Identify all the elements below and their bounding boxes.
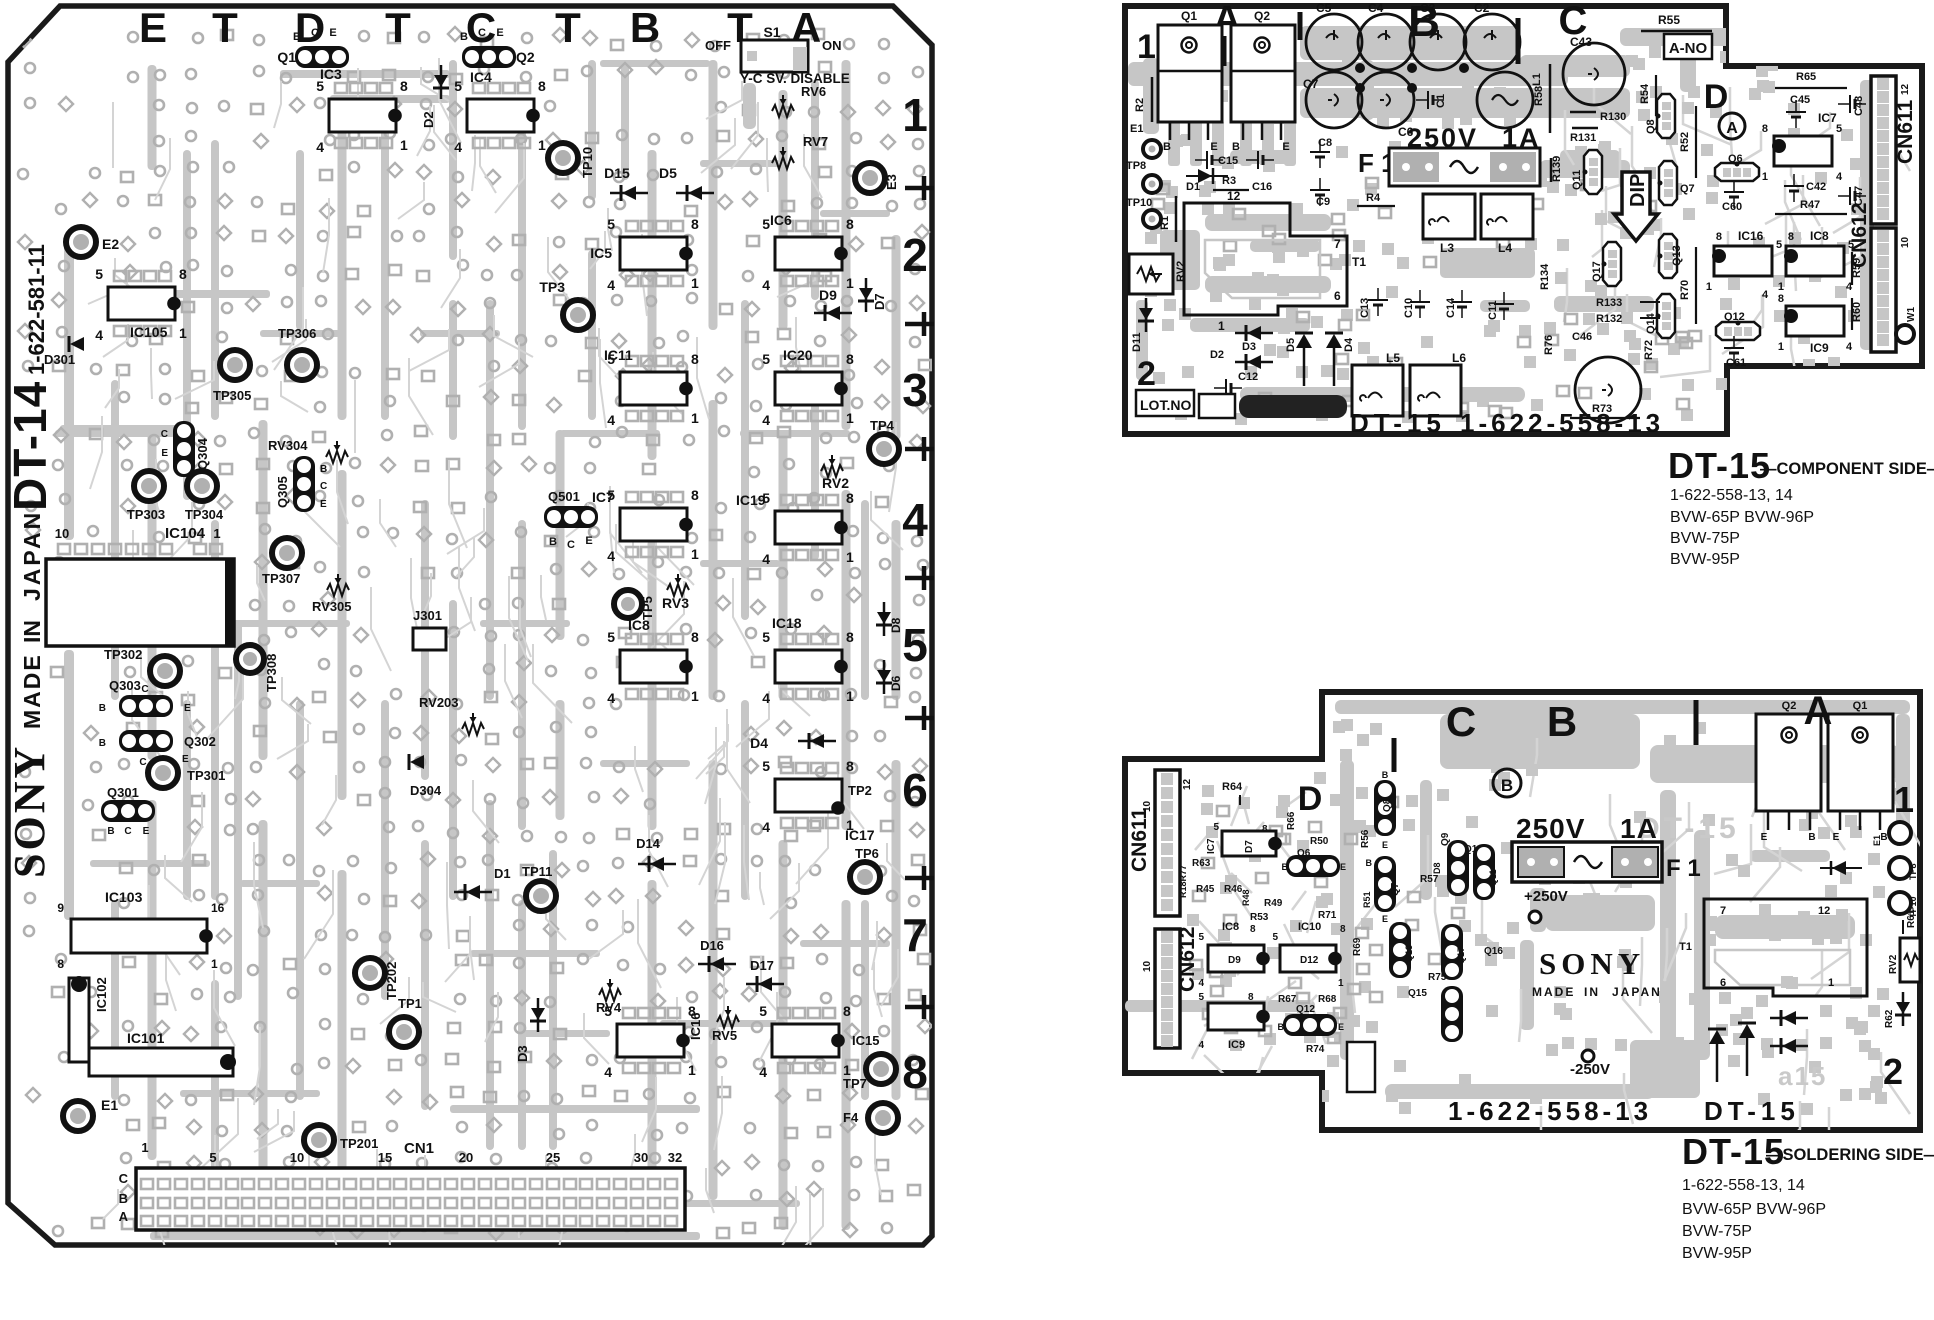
svg-text:R46: R46 (1224, 884, 1243, 895)
svg-text:8: 8 (400, 78, 408, 94)
IC104 (46, 559, 234, 646)
svg-text:IC18: IC18 (772, 615, 802, 631)
svg-text:5: 5 (1272, 932, 1278, 943)
svg-text:8: 8 (1248, 992, 1254, 1003)
IC11 (620, 372, 687, 405)
svg-text:B: B (1163, 141, 1171, 153)
svg-text:D301: D301 (44, 352, 75, 367)
svg-text:5: 5 (604, 1003, 612, 1019)
svg-text:2: 2 (902, 229, 928, 281)
svg-text:R2: R2 (1134, 98, 1146, 112)
connector CN611 (1155, 770, 1180, 916)
svg-text:B: B (99, 703, 106, 714)
svg-text:R65: R65 (1796, 71, 1816, 83)
test point W1 (1896, 325, 1914, 343)
IC20 (775, 372, 842, 405)
svg-text:C11: C11 (1487, 300, 1499, 320)
transformer T1 (1704, 899, 1867, 996)
svg-text:D14: D14 (636, 836, 661, 851)
svg-text:4: 4 (762, 277, 770, 293)
svg-text:1: 1 (846, 549, 854, 565)
svg-text:D1: D1 (1186, 181, 1200, 193)
-250V test point (1582, 1050, 1594, 1062)
svg-text:5: 5 (902, 619, 928, 671)
svg-text:R61: R61 (1906, 909, 1917, 928)
svg-text:SONY: SONY (1539, 946, 1645, 981)
svg-text:IC7: IC7 (592, 489, 614, 505)
svg-text:D: D (295, 4, 325, 51)
capacitor C15 (1206, 151, 1208, 169)
diode D8 (877, 612, 891, 624)
transistor Q17 (1441, 924, 1463, 980)
test point TP5 (614, 590, 642, 618)
trimmer RV7 (772, 157, 794, 169)
svg-text:1: 1 (141, 1140, 148, 1155)
diode D2 (434, 75, 448, 87)
svg-text:7: 7 (1720, 905, 1726, 917)
svg-text:E: E (1210, 141, 1217, 153)
svg-text:OFF: OFF (705, 38, 731, 53)
svg-text:E1: E1 (1130, 123, 1143, 135)
trimmer RV304 (326, 451, 348, 463)
svg-text:CN612: CN612 (1848, 203, 1871, 268)
svg-text:Q15: Q15 (1408, 988, 1427, 999)
svg-text:R52: R52 (1679, 132, 1691, 152)
transistor Q1 (1828, 714, 1893, 811)
capacitor C43 (1563, 43, 1625, 105)
svg-text:TP8: TP8 (1126, 160, 1146, 172)
diode D304 (410, 755, 424, 769)
test point TP10 (548, 143, 578, 173)
svg-text:TP6: TP6 (855, 846, 879, 861)
svg-text:Q301: Q301 (107, 785, 139, 800)
svg-text:1: 1 (1778, 341, 1784, 353)
svg-text:1-622-558-13: 1-622-558-13 (1448, 1096, 1652, 1126)
svg-text:IN: IN (19, 620, 45, 643)
svg-text:B: B (1278, 1022, 1285, 1032)
svg-text:MADE: MADE (19, 653, 45, 729)
transistor Q11 (1473, 844, 1495, 900)
svg-text:IC101: IC101 (127, 1030, 165, 1046)
transistor Q6 (1715, 163, 1759, 181)
svg-text:D1: D1 (494, 866, 511, 881)
svg-text:Q16: Q16 (1484, 946, 1503, 957)
svg-text:8: 8 (179, 266, 187, 282)
svg-text:5: 5 (1198, 992, 1204, 1003)
svg-text:4: 4 (902, 494, 928, 546)
trimmer RV2 (1900, 938, 1920, 982)
svg-text:Q11: Q11 (1488, 869, 1498, 886)
svg-text:JAPAN: JAPAN (1612, 985, 1662, 999)
trimmer RV3 (667, 584, 689, 596)
capacitor C9 (1310, 189, 1330, 191)
IC9 (1208, 1003, 1264, 1030)
svg-text:Q1: Q1 (1181, 9, 1197, 23)
svg-text:C: C (478, 27, 486, 39)
diode D4 (810, 734, 824, 748)
svg-text:BVW-65P BVW-96P: BVW-65P BVW-96P (1670, 509, 1814, 526)
svg-text:4: 4 (1198, 978, 1204, 989)
svg-text:DT-15: DT-15 (1350, 408, 1446, 438)
svg-text:A: A (1726, 120, 1738, 137)
diode D5 (688, 186, 702, 200)
svg-text:E2: E2 (102, 236, 119, 252)
diode D2 (1247, 355, 1261, 369)
capacitor C16 (1257, 151, 1259, 169)
transistor Q305 (293, 456, 315, 512)
transistor Q7 (1374, 856, 1396, 912)
svg-text:E: E (182, 754, 189, 765)
svg-text:T: T (212, 4, 238, 51)
svg-text:Q303: Q303 (109, 678, 141, 693)
trimmer RV2 (821, 465, 843, 477)
svg-text:Q8: Q8 (1382, 798, 1393, 812)
svg-text:E: E (496, 27, 503, 39)
svg-text:4: 4 (1198, 1040, 1204, 1051)
svg-text:E: E (320, 499, 327, 510)
svg-text:Q1: Q1 (277, 49, 296, 65)
svg-text:1: 1 (1778, 281, 1784, 293)
svg-text:C2: C2 (1474, 1, 1490, 15)
svg-text:4: 4 (1762, 289, 1769, 301)
svg-text:TP2: TP2 (848, 783, 872, 798)
capacitor C12 (1225, 379, 1227, 397)
svg-text:D17: D17 (750, 958, 774, 973)
svg-text:C: C (567, 539, 575, 551)
svg-text:8: 8 (691, 629, 699, 645)
svg-text:C: C (161, 429, 168, 440)
svg-text:C: C (124, 826, 131, 837)
svg-text:R72: R72 (1643, 340, 1655, 360)
svg-text:4: 4 (762, 690, 770, 706)
svg-text:IC16: IC16 (1738, 229, 1764, 243)
svg-text:-250V: -250V (1570, 1061, 1610, 1078)
svg-text:CN611: CN611 (1128, 807, 1151, 872)
svg-text:1: 1 (691, 275, 699, 291)
svg-text:D5: D5 (659, 165, 677, 181)
svg-text:TP305: TP305 (213, 388, 251, 403)
transistor Q13 (1389, 922, 1411, 978)
svg-text:D15: D15 (604, 165, 630, 181)
test point TP304 (187, 471, 217, 501)
svg-text:1: 1 (1137, 28, 1156, 66)
switch S1 (741, 40, 808, 72)
svg-text:B: B (320, 464, 327, 475)
svg-text:4: 4 (762, 551, 770, 567)
svg-text:TP302: TP302 (104, 647, 142, 662)
transistor Q12 (1283, 1014, 1337, 1036)
svg-text:D8: D8 (889, 617, 903, 633)
svg-text:12: 12 (1818, 905, 1830, 917)
svg-text:F4: F4 (843, 1110, 859, 1125)
test point TP302 (150, 656, 180, 686)
svg-text:F 1: F 1 (1666, 855, 1701, 882)
svg-text:DT-15: DT-15 (1704, 1096, 1800, 1126)
svg-text:32: 32 (668, 1150, 682, 1165)
svg-text:T: T (555, 4, 581, 51)
svg-text:E1: E1 (1872, 835, 1882, 846)
electrolytic capacitors C5 C4 C3 C2 (1306, 14, 1362, 70)
svg-text:1: 1 (691, 688, 699, 704)
svg-text:5: 5 (1836, 123, 1842, 135)
diode D4 (1326, 334, 1342, 348)
svg-text:C42: C42 (1806, 181, 1826, 193)
svg-text:D16: D16 (700, 938, 724, 953)
svg-text:R76: R76 (1543, 335, 1555, 355)
svg-text:8: 8 (691, 216, 699, 232)
svg-text:1A: 1A (1502, 123, 1541, 153)
transistor Q302 (119, 730, 173, 752)
svg-text:1: 1 (213, 526, 220, 541)
svg-text:Q6: Q6 (1297, 848, 1311, 859)
svg-text:R68: R68 (1318, 994, 1337, 1005)
svg-text:C4: C4 (1368, 1, 1384, 15)
IC103 (71, 919, 207, 953)
svg-text:C60: C60 (1722, 201, 1742, 213)
svg-text:C13: C13 (1359, 298, 1371, 318)
svg-text:Q11: Q11 (1571, 170, 1583, 190)
copper traces DT-15 soldering side (1125, 700, 1925, 1181)
svg-text:R133: R133 (1596, 297, 1622, 309)
trimmer RV2 (1129, 254, 1173, 294)
svg-text:E: E (143, 826, 150, 837)
svg-text:IC9: IC9 (1228, 1039, 1245, 1051)
transistor Q6 (1286, 855, 1340, 877)
svg-text:R49: R49 (1264, 898, 1283, 909)
svg-text:8: 8 (846, 490, 854, 506)
svg-text:TP7: TP7 (843, 1076, 867, 1091)
svg-text:Q12: Q12 (1724, 311, 1745, 323)
svg-text:E: E (1833, 832, 1840, 843)
svg-text:R51: R51 (1362, 891, 1372, 908)
svg-text:R62: R62 (1884, 1009, 1895, 1028)
svg-text:4: 4 (95, 327, 103, 343)
svg-text:10: 10 (1142, 800, 1153, 812)
svg-text:IC19: IC19 (736, 492, 766, 508)
svg-text:RV304: RV304 (268, 438, 308, 453)
svg-text:TP8: TP8 (1908, 863, 1918, 880)
test point TP305 (220, 350, 250, 380)
svg-text:4: 4 (604, 1064, 612, 1080)
svg-text:D2: D2 (1210, 349, 1224, 361)
svg-text:B: B (1282, 862, 1289, 872)
connector CN1 (136, 1168, 685, 1230)
svg-text:JAPAN: JAPAN (19, 510, 45, 601)
svg-text:IC7: IC7 (1206, 838, 1217, 854)
svg-text:BVW-75P: BVW-75P (1682, 1223, 1752, 1240)
svg-text:D6: D6 (889, 675, 903, 691)
svg-text:8: 8 (843, 1003, 851, 1019)
svg-text:D7: D7 (1244, 840, 1255, 853)
svg-text:BVW-65P BVW-96P: BVW-65P BVW-96P (1682, 1201, 1826, 1218)
svg-text:R56: R56 (1360, 829, 1371, 848)
svg-text:R67: R67 (1278, 994, 1297, 1005)
svg-text:RV2: RV2 (822, 475, 849, 491)
svg-text:R53: R53 (1250, 912, 1269, 923)
diode near TP8 (1832, 861, 1846, 875)
svg-text:B: B (1808, 832, 1815, 843)
svg-text:L1: L1 (1531, 73, 1543, 86)
svg-text:5: 5 (762, 629, 770, 645)
svg-text:C61: C61 (1726, 357, 1746, 369)
jumper J301 (413, 628, 446, 650)
svg-text:R71: R71 (1318, 910, 1337, 921)
svg-text:RV2: RV2 (1175, 261, 1187, 282)
svg-text:30: 30 (634, 1150, 648, 1165)
svg-text:J301: J301 (413, 608, 442, 623)
svg-text:D4: D4 (750, 735, 768, 751)
svg-text:R134: R134 (1539, 263, 1551, 290)
board outline DT-15 component side (1125, 6, 1922, 434)
svg-text:IC10: IC10 (1298, 921, 1321, 933)
svg-text:DIP: DIP (1627, 174, 1649, 207)
svg-text:5: 5 (762, 351, 770, 367)
transistor Q17 (1603, 242, 1621, 286)
svg-text:2: 2 (1883, 1051, 1903, 1092)
transistor Q11 (1584, 150, 1602, 194)
svg-text:RV2: RV2 (1888, 954, 1899, 974)
svg-text:8: 8 (691, 487, 699, 503)
svg-text:C46: C46 (1572, 331, 1592, 343)
connector CN612 (1155, 929, 1180, 1048)
svg-text:D: D (1704, 78, 1729, 116)
svg-text:TP10: TP10 (580, 147, 595, 178)
svg-text:IC8: IC8 (1222, 921, 1239, 933)
capacitor C8 (1310, 151, 1330, 153)
svg-text:4: 4 (762, 819, 770, 835)
transistor Q13 (1659, 234, 1677, 278)
svg-text:R18R77: R18R77 (1178, 865, 1188, 898)
svg-text:B: B (1547, 698, 1577, 745)
svg-text:IC8: IC8 (628, 617, 650, 633)
transistor Q14 (1657, 294, 1675, 338)
svg-text:Q12: Q12 (1296, 1004, 1315, 1015)
svg-text:5: 5 (1213, 822, 1219, 833)
svg-text:L6: L6 (1452, 351, 1466, 365)
inductor L5 (1352, 365, 1403, 416)
test point TP307 (272, 538, 302, 568)
svg-text:E: E (329, 27, 336, 39)
inductor L1 (1477, 72, 1533, 128)
svg-text:R47: R47 (1800, 199, 1820, 211)
svg-text:R1: R1 (1159, 216, 1171, 230)
svg-text:DT-14: DT-14 (4, 381, 56, 511)
svg-text:4: 4 (454, 139, 462, 155)
trimmer RV305 (327, 584, 349, 596)
svg-text:1: 1 (846, 688, 854, 704)
svg-text:C16: C16 (1252, 181, 1272, 193)
connector CN611 (1871, 76, 1896, 224)
svg-text:B: B (107, 826, 114, 837)
svg-text:LOT.NO: LOT.NO (1140, 397, 1191, 413)
transistor Q501 (544, 506, 598, 528)
svg-text:RV3: RV3 (662, 595, 689, 611)
capacitor C61 (1724, 347, 1744, 349)
svg-text:R58: R58 (1533, 86, 1545, 106)
svg-text:Q8: Q8 (1645, 119, 1657, 134)
transistor Q303 (119, 695, 173, 717)
svg-text:5: 5 (1198, 932, 1204, 943)
capacitor C1 (1427, 91, 1429, 109)
svg-text:R3: R3 (1222, 175, 1236, 187)
alignment T fiducials (922, 176, 927, 200)
svg-text:IC5: IC5 (590, 245, 612, 261)
IC4 (467, 99, 534, 132)
svg-text:R70: R70 (1679, 280, 1691, 300)
svg-text:4: 4 (1836, 171, 1843, 183)
svg-text:5: 5 (607, 629, 615, 645)
transistor Q8 (1374, 780, 1396, 836)
svg-text:IC9: IC9 (1810, 341, 1829, 355)
rectifier diodes (1709, 1030, 1725, 1044)
svg-text:8: 8 (846, 216, 854, 232)
transistor Q7 (1659, 161, 1677, 205)
IC5 (620, 237, 687, 270)
svg-text:8: 8 (57, 957, 64, 971)
DIP arrow (1614, 172, 1658, 241)
svg-text:T1: T1 (1679, 941, 1692, 953)
svg-text:4: 4 (607, 690, 615, 706)
svg-text:D9: D9 (819, 287, 837, 303)
svg-text:C9: C9 (1316, 196, 1330, 208)
svg-text:IC4: IC4 (470, 69, 492, 85)
svg-text:Q14: Q14 (1645, 312, 1657, 334)
svg-text:R48: R48 (1241, 889, 1251, 906)
svg-text:Q17: Q17 (1456, 947, 1466, 964)
svg-text:1: 1 (1828, 977, 1834, 989)
svg-text:B: B (630, 4, 660, 51)
transistor Q9 (1447, 840, 1469, 896)
svg-text:TP306: TP306 (278, 326, 316, 341)
svg-text:Q1: Q1 (1853, 700, 1868, 712)
svg-text:C: C (311, 27, 319, 39)
svg-text:E: E (1282, 141, 1289, 153)
svg-text:5: 5 (454, 78, 462, 94)
capacitor C11 (1494, 303, 1514, 305)
test point TP4 (869, 434, 899, 464)
IC102 (69, 978, 89, 1062)
svg-text:1-622-558-13, 14: 1-622-558-13, 14 (1670, 487, 1793, 504)
svg-text:CN1: CN1 (404, 1140, 434, 1157)
svg-text:C45: C45 (1790, 94, 1810, 106)
svg-text:1: 1 (846, 410, 854, 426)
svg-text:Q2: Q2 (516, 49, 535, 65)
svg-text:BVW-95P: BVW-95P (1670, 551, 1740, 568)
svg-text:RV203: RV203 (419, 695, 459, 710)
svg-text:E1: E1 (101, 1097, 118, 1113)
transistor Q2 (1756, 714, 1821, 811)
connector CN612 (1871, 228, 1896, 352)
svg-text:E: E (585, 535, 592, 547)
svg-text:T: T (385, 4, 411, 51)
svg-text:E: E (1338, 1022, 1344, 1032)
svg-text:R63: R63 (1192, 858, 1211, 869)
IC3 (329, 99, 396, 132)
component box (1347, 1042, 1375, 1092)
svg-text:1: 1 (1706, 281, 1712, 293)
svg-text:RV6: RV6 (801, 84, 826, 99)
svg-text:2: 2 (1137, 355, 1156, 393)
svg-text:1: 1 (1894, 779, 1914, 820)
svg-text:8: 8 (1716, 231, 1722, 243)
capacitor C60 (1724, 191, 1744, 193)
svg-text:Q2: Q2 (1782, 700, 1797, 712)
diode D6 (877, 670, 891, 682)
IC19 (775, 511, 842, 544)
svg-text:D7: D7 (872, 293, 887, 310)
IC9 (1786, 306, 1844, 336)
svg-text:R57: R57 (1420, 874, 1439, 885)
